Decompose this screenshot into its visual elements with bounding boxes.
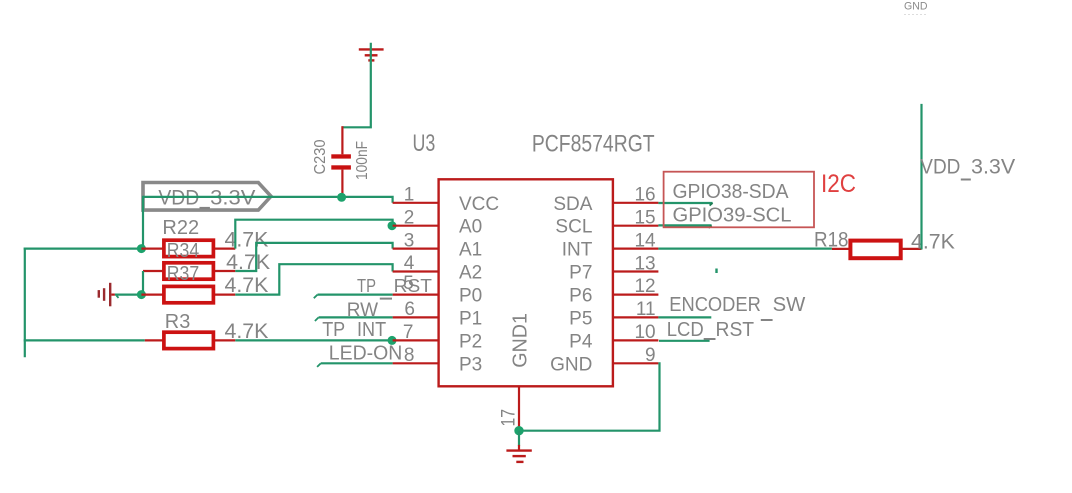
- svg-text:U3: U3: [413, 130, 436, 157]
- pin 16 SDA stub: [613, 202, 659, 204]
- svg-text:3: 3: [404, 230, 415, 251]
- pin 4 A2 stub: [393, 270, 439, 272]
- pin 7 P2 stub: [393, 339, 439, 341]
- svg-text:C230: C230: [312, 139, 329, 174]
- ground (left, earth): [99, 283, 110, 307]
- svg-text:GPIO39-SCL: GPIO39-SCL: [673, 205, 792, 227]
- svg-text:SDA: SDA: [553, 194, 592, 215]
- svg-text:13: 13: [634, 253, 655, 274]
- wire LED-ON: [321, 362, 393, 364]
- svg-text:16: 16: [634, 185, 655, 206]
- svg-text:9: 9: [645, 345, 656, 366]
- pin 15 SCL stub: [613, 225, 659, 227]
- wire tick: [710, 203, 713, 206]
- svg-text:VCC: VCC: [459, 194, 499, 215]
- wire left bus vertical: [24, 248, 26, 358]
- junction: [514, 426, 523, 435]
- wire TP_RST: [318, 294, 393, 296]
- svg-text:4.7K: 4.7K: [911, 231, 955, 254]
- svg-text:TP: TP: [357, 276, 376, 296]
- resistor R22/R34 body: [141, 240, 235, 256]
- pin 1 VCC stub: [393, 202, 439, 204]
- power flag VDD_3.3V (left): [143, 183, 271, 211]
- pin 2 A0 stub: [393, 225, 439, 227]
- svg-text:6: 6: [404, 299, 415, 320]
- svg-text:VDD: VDD: [920, 156, 960, 179]
- svg-text:7: 7: [403, 322, 414, 343]
- svg-text:PCF8574RGT: PCF8574RGT: [532, 130, 655, 157]
- net GND underline (faint): [904, 14, 926, 16]
- net label LCD_RST: [667, 319, 754, 341]
- svg-text:P2: P2: [459, 331, 482, 352]
- wire tick: [317, 363, 321, 367]
- svg-text:R3: R3: [165, 311, 191, 333]
- wire GPIO38-SDA: [658, 202, 712, 204]
- svg-text:R18: R18: [814, 229, 849, 252]
- svg-text:LED-ON: LED-ON: [329, 343, 403, 365]
- pin 17 stub: [518, 386, 520, 428]
- svg-text:R34: R34: [167, 240, 199, 262]
- wire tick: [314, 295, 318, 299]
- wire R37 down to junction: [142, 271, 144, 295]
- wire to capacitor C230: [341, 126, 343, 154]
- pin 13 P7 stub: [613, 270, 659, 272]
- svg-text:R22: R22: [162, 217, 199, 239]
- wire left bus to R3: [24, 339, 145, 341]
- resistor R18 body: [832, 241, 922, 259]
- wire R22 to pin 2: [235, 220, 392, 249]
- svg-text:10: 10: [634, 322, 655, 343]
- svg-text:P0: P0: [459, 286, 482, 307]
- wire ENCODER_SW: [658, 316, 711, 318]
- junction: [337, 193, 346, 202]
- svg-text:GND: GND: [904, 1, 928, 13]
- pin 6 P1 stub: [393, 316, 439, 318]
- net label TP_RST: [357, 276, 432, 299]
- pin 3 A1 stub: [393, 248, 439, 250]
- svg-text:A0: A0: [459, 217, 482, 238]
- wire GPIO39-SCL: [658, 224, 711, 226]
- junction: [388, 221, 397, 230]
- resistor (third in stack, unlabeled) body: [141, 286, 235, 302]
- pin 12 P6 stub: [613, 294, 659, 296]
- svg-text:LCD: LCD: [667, 319, 704, 341]
- wire to ground: [518, 431, 520, 446]
- svg-text:A1: A1: [459, 240, 482, 261]
- net label RW: [347, 300, 378, 321]
- wire INT to R18: [658, 248, 832, 250]
- wire VDD horizontal to pin 1: [143, 197, 393, 203]
- pin 11 P5 stub: [613, 316, 659, 318]
- wire R36 to pin 4: [235, 264, 392, 294]
- junction: [137, 290, 146, 299]
- resistor R37 body: [143, 263, 235, 279]
- svg-text:12: 12: [634, 276, 655, 297]
- svg-text:A2: A2: [459, 263, 482, 284]
- pin 14 INT stub: [613, 248, 659, 250]
- svg-text:4.7K: 4.7K: [225, 228, 269, 251]
- svg-text:100nF: 100nF: [354, 141, 371, 180]
- svg-text:P1: P1: [459, 308, 482, 329]
- svg-text:ENCODER: ENCODER: [669, 294, 761, 316]
- pin 5 P0 stub: [393, 294, 439, 296]
- wire R37 to pin 3: [235, 243, 392, 271]
- svg-text:VDD: VDD: [158, 187, 199, 210]
- wire ground stub: [111, 294, 115, 296]
- pin 10 P4 stub: [613, 339, 659, 341]
- svg-text:15: 15: [634, 208, 655, 229]
- capacitor C230: [331, 154, 351, 197]
- svg-text:11: 11: [636, 299, 656, 320]
- wire GND net (pin 9 down and across): [519, 363, 660, 430]
- net name VDD_3.3V (right): [920, 156, 1015, 180]
- junction: [388, 336, 397, 345]
- svg-text:4: 4: [404, 253, 415, 274]
- resistor R3 body: [145, 332, 236, 348]
- IC U3 PCF8574RGT body: [439, 179, 613, 386]
- svg-text:GPIO38-SDA: GPIO38-SDA: [673, 181, 790, 203]
- svg-text:SW: SW: [773, 294, 806, 316]
- pin 8 P3 stub: [393, 362, 439, 364]
- svg-text:R37: R37: [167, 263, 199, 285]
- svg-text:2: 2: [404, 207, 415, 228]
- svg-text:I2C: I2C: [821, 170, 856, 198]
- svg-text:RST: RST: [716, 319, 755, 341]
- svg-text:GND1: GND1: [510, 313, 532, 368]
- svg-text:3.3V: 3.3V: [210, 187, 255, 210]
- wire tick: [117, 296, 119, 298]
- svg-text:P4: P4: [569, 331, 593, 352]
- wire tick pin 13: [715, 269, 717, 274]
- svg-text:17: 17: [499, 409, 520, 427]
- ground GND (bottom): [506, 445, 531, 462]
- svg-text:14: 14: [634, 230, 656, 251]
- wire R3 to pin 7: [235, 339, 392, 341]
- net name VDD_3.3V: [158, 187, 255, 210]
- wire tick: [315, 317, 319, 321]
- svg-text:INT: INT: [562, 240, 593, 261]
- svg-text:INT: INT: [357, 319, 386, 341]
- svg-text:P7: P7: [569, 263, 592, 284]
- svg-text:TP: TP: [322, 319, 345, 341]
- svg-text:3.3V: 3.3V: [971, 156, 1015, 179]
- frame I2C group box: [664, 172, 814, 228]
- svg-text:P6: P6: [569, 286, 592, 307]
- wire ground to junction: [115, 294, 141, 296]
- svg-text:8: 8: [404, 345, 415, 366]
- pin 9 GND stub: [613, 362, 659, 364]
- svg-text:SCL: SCL: [555, 217, 592, 238]
- wire VDD_3.3V vertical (right): [920, 104, 922, 250]
- svg-text:P3: P3: [459, 354, 482, 375]
- wire VDD down to resistors: [142, 196, 144, 249]
- ground GND (top, for C230): [359, 49, 384, 60]
- wire LCD_RST: [659, 340, 710, 342]
- junction: [137, 244, 146, 253]
- wire tick: [709, 225, 712, 228]
- svg-text:GND: GND: [550, 354, 592, 375]
- wire: [342, 43, 370, 128]
- svg-text:P5: P5: [569, 308, 592, 329]
- wire left bus to R22: [24, 248, 142, 250]
- wire RW: [319, 316, 393, 318]
- svg-text:RST: RST: [394, 276, 432, 296]
- net label ENCODER_SW: [669, 294, 805, 320]
- svg-text:1: 1: [404, 185, 415, 206]
